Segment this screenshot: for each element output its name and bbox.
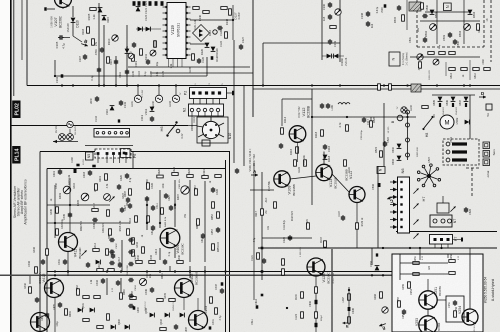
diode bridge D116 [193, 25, 210, 42]
resistor R252 [449, 260, 455, 263]
bus wire [55, 75, 207, 77]
junction [382, 247, 384, 249]
wire [322, 55, 344, 57]
connector P7 pin 1 [434, 238, 437, 241]
resistor R127 [315, 287, 318, 293]
wire [432, 94, 475, 96]
scale lamp E103 [172, 95, 179, 102]
adjust arrow [182, 187, 187, 192]
resistor R424 [202, 176, 208, 179]
capacitor C429 [117, 184, 121, 190]
wire [120, 278, 122, 292]
resistor R452 [217, 212, 220, 218]
wire [252, 0, 254, 117]
transistor V401 [160, 228, 180, 248]
junction [189, 270, 191, 272]
diode V110 [110, 106, 115, 111]
connector P2 pin 3 [205, 91, 208, 94]
resistor R428 [95, 184, 98, 190]
capacitor C118c [341, 215, 345, 221]
resistor R107 [107, 57, 110, 63]
capacitor C124 [155, 1, 158, 6]
arrowhead [53, 140, 57, 143]
resistor R524b [380, 151, 383, 157]
wire [323, 152, 325, 165]
wire [47, 8, 55, 10]
connector N6 square 4 [400, 203, 402, 205]
IC pin mark 13 [186, 24, 188, 26]
connector N5 pin 3 [112, 152, 115, 155]
resistor R464b [197, 219, 200, 225]
resistor R420 [157, 175, 163, 178]
transistor V413 [31, 313, 50, 332]
diode D111 [136, 7, 141, 12]
resistor R460b [120, 293, 123, 299]
pot R406 [104, 194, 111, 201]
pin lead [390, 219, 393, 221]
bus junction [262, 84, 264, 86]
pin lead [204, 112, 206, 116]
wire [377, 166, 379, 248]
IC pin lead [168, 59, 170, 68]
IC pin 9 left [163, 54, 168, 56]
capacitor C141 [119, 100, 123, 106]
connector N6 square 1 [400, 181, 402, 183]
connector P7 key [461, 238, 463, 242]
capacitor C126 [217, 26, 223, 30]
connector N4 pin 1 [96, 132, 99, 135]
capacitor C430 [41, 259, 45, 265]
resistor R521 [389, 84, 392, 90]
trimmer R261 [382, 307, 388, 313]
wire [204, 181, 206, 262]
transistor V412 [45, 279, 64, 298]
capacitor C433 [101, 278, 105, 284]
junction d [419, 247, 421, 249]
capacitor C404 [163, 259, 167, 265]
capacitor C403 [88, 170, 92, 176]
resistor R435 [94, 296, 100, 299]
test point [213, 30, 217, 34]
capacitor C439 [45, 312, 49, 318]
resistor R442 [142, 247, 145, 253]
wire [62, 8, 64, 10]
resistor L502 [449, 52, 455, 55]
junction [206, 43, 208, 45]
bus junction [469, 84, 471, 86]
resistor R467b [195, 189, 198, 195]
connector N2 pin 2 [197, 108, 200, 111]
AF module outer edge [229, 151, 231, 332]
switch box H12 [483, 151, 490, 158]
rail junction [224, 270, 226, 272]
switch box H11 [483, 142, 490, 149]
resistor R511 [461, 68, 467, 71]
resistor R260 [380, 292, 383, 298]
capacitor C418b [111, 253, 115, 259]
wire [420, 20, 480, 22]
wire [370, 117, 372, 121]
resistor R105 [90, 8, 96, 11]
capacitor C406 [150, 287, 154, 293]
capacitor C530 [378, 183, 381, 187]
capacitor C138 [384, 4, 387, 7]
transistor V111b [349, 187, 365, 203]
IC pin 13 right [186, 24, 191, 26]
rail junction [67, 270, 69, 272]
adjust arrow [417, 54, 422, 59]
bus wire [150, 72, 253, 74]
adjust arrow n6d [413, 233, 418, 238]
bus junction [406, 84, 408, 86]
capacitor C420 [125, 173, 129, 179]
IC pin lead [172, 59, 174, 68]
paper left margin [0, 0, 10, 332]
connector N6 pin 1 [393, 180, 398, 184]
wire [175, 86, 177, 96]
wire [64, 37, 70, 39]
connector P7 pin 2 [440, 238, 443, 241]
capacitor C125 [161, 1, 164, 6]
connector N5 pin 2 [106, 152, 109, 155]
switch H7 contact [436, 168, 439, 171]
signal arrow E3 [343, 322, 350, 329]
capacitor C401 [58, 169, 62, 175]
capacitor C137 [366, 21, 370, 27]
diode D507 [464, 97, 469, 102]
resistor R117 [261, 209, 264, 215]
IC pin 3 left [163, 18, 168, 20]
resistor R434 [83, 296, 89, 299]
connector N4 outline [94, 129, 130, 138]
resistor R411 [147, 216, 150, 222]
bus junction [463, 84, 465, 86]
diode Q401 [78, 308, 83, 313]
capacitor C502 [423, 37, 427, 43]
IC pin 7 left [163, 42, 168, 44]
resistor R462b [77, 289, 80, 295]
resistor R421 [172, 173, 178, 176]
wire [445, 62, 447, 76]
supply bus 2 [253, 88, 500, 90]
control N10 rotary [197, 117, 224, 139]
wire [47, 204, 110, 206]
IC pin mark 16 [186, 42, 188, 44]
wire [103, 25, 105, 85]
capacitor C434 [116, 280, 120, 286]
diode D505 [438, 97, 443, 102]
transistor V411 [59, 233, 78, 252]
capacitor C108 [58, 35, 64, 39]
diode D128 [211, 47, 216, 52]
capacitor column B [128, 262, 134, 266]
wire [159, 190, 161, 228]
pot R405 [81, 193, 89, 201]
wire [348, 287, 350, 325]
wire [227, 92, 234, 94]
rail junction [159, 270, 161, 272]
connector N2 outline [189, 104, 224, 116]
capacitor C432 [35, 297, 39, 303]
connector N6 square 5 [400, 211, 402, 213]
capacitor C408 [221, 282, 224, 285]
junction [159, 222, 161, 224]
relay N7 pin 1 [433, 219, 437, 223]
resistor R440 [132, 238, 135, 244]
resistor C403b [149, 261, 155, 264]
capacitor column B [128, 304, 134, 308]
capacitor C503 [448, 32, 452, 38]
junction [67, 270, 69, 272]
pin lead [447, 244, 449, 248]
pin lead [206, 99, 208, 105]
resistor R122 [344, 160, 347, 166]
wire [204, 266, 206, 310]
wire [261, 172, 263, 280]
wire [281, 99, 283, 126]
bus junction [339, 84, 341, 86]
capacitor column B [128, 278, 134, 282]
IC pin lead [177, 59, 179, 68]
adjust arrow [430, 24, 435, 29]
adjust arrow [82, 194, 87, 199]
resistor R414 [106, 249, 109, 255]
wire [189, 180, 191, 262]
pin lead [211, 112, 213, 116]
rail junction [54, 270, 56, 272]
capacitor C116 [323, 144, 327, 150]
pin lead [191, 112, 193, 116]
connector P2 pin 4 [211, 91, 214, 94]
relay N7 coil [437, 203, 449, 213]
wire [98, 3, 100, 85]
adjust arrow [64, 187, 69, 192]
capacitor C252b [402, 309, 406, 315]
switch H6 [166, 121, 177, 136]
wire [217, 116, 219, 117]
wire [469, 60, 471, 80]
diode D504 [468, 10, 473, 15]
connector P2 pin 5 [218, 91, 221, 94]
svg-text:R408: R408 [125, 191, 127, 197]
connector N9 bar 2 [452, 150, 467, 153]
wire [406, 0, 408, 30]
resistor R445 [157, 299, 163, 302]
module label PL02 [12, 101, 21, 119]
resistor R520 [378, 84, 381, 90]
pin lead [119, 155, 121, 163]
resistor R300 [348, 294, 351, 300]
IC pin 8 left [163, 48, 168, 50]
dashed wire 2 [471, 168, 473, 196]
connector N9 pin 2 [446, 150, 450, 154]
IC pin mark 5 [165, 30, 167, 32]
IC pin lead [181, 59, 183, 68]
connector P7 pin 3 [447, 238, 450, 241]
capacitor C120 [133, 1, 136, 6]
inner box W250 [446, 296, 464, 322]
bus junction [436, 84, 438, 86]
junction c [348, 289, 350, 291]
wire [407, 112, 409, 160]
pin lead [390, 196, 393, 198]
trimmer R502 [430, 24, 437, 31]
wire [204, 116, 206, 117]
capacitor C110 [97, 67, 101, 73]
resistor R124 [257, 253, 260, 259]
IC pin 18 right [186, 54, 191, 56]
bus junction [158, 84, 160, 86]
wire [54, 70, 56, 76]
wire [253, 163, 255, 300]
diode D506 [451, 97, 456, 102]
resistor R129b [307, 223, 310, 229]
wire [463, 0, 465, 44]
pin lead [390, 189, 393, 191]
junction [311, 116, 313, 118]
capacitor C109 [100, 47, 104, 53]
wire [137, 86, 139, 96]
AF module top edge [47, 168, 226, 170]
junction [103, 84, 105, 86]
resistor R133c [324, 241, 327, 247]
capacitor C251 [453, 300, 457, 306]
trimmer R110 [112, 35, 118, 41]
svg-text:C432: C432 [116, 243, 118, 249]
IC pin mark 9 [165, 54, 167, 56]
dial lamp bus [11, 125, 188, 127]
adjust arrow n6b [413, 203, 418, 208]
resistor R256 [454, 311, 457, 317]
resistor R425 [215, 175, 221, 178]
trimmer R131 [150, 50, 156, 56]
connector N6 pin 5 [393, 210, 398, 214]
wire [469, 254, 471, 309]
capacitor C124 [211, 56, 214, 60]
connector N9 pin 3 [446, 158, 450, 162]
resistor R251 [413, 262, 419, 265]
transistor V107 [55, 0, 72, 8]
wire [183, 298, 185, 310]
pin lead [390, 181, 393, 183]
IC pin mark 2 [165, 12, 167, 14]
capacitor C300 [348, 307, 351, 311]
wire [29, 276, 31, 284]
transistor V123 [307, 258, 325, 276]
capacitor C409 [92, 218, 98, 222]
connector N6 pin 4 [393, 203, 398, 207]
resistor R437 [107, 314, 110, 320]
capacitor C425b [164, 193, 168, 199]
AF module right edge [225, 160, 227, 332]
wire [312, 116, 416, 118]
resistor R140 [193, 7, 199, 10]
wire [174, 180, 176, 227]
pin lead [193, 99, 195, 105]
junction [98, 84, 100, 86]
resistor R258b [398, 301, 401, 307]
junction [72, 84, 74, 86]
IC pin 1 left [163, 6, 168, 8]
connector N4 pin 3 [108, 132, 111, 135]
lamp H1 [67, 121, 73, 127]
capacitor C453 [216, 227, 220, 233]
IC U119 outline [167, 3, 186, 59]
connector P6 pin [123, 152, 126, 155]
wire [53, 141, 78, 143]
capacitor C111 [125, 69, 129, 75]
resistor R121 [304, 160, 307, 166]
adjust arrow n7 [450, 206, 455, 211]
capacitor C113 [150, 116, 154, 122]
resistor R513 [484, 68, 490, 71]
capacitor C423 [128, 203, 132, 209]
resistor R119 [346, 125, 349, 131]
junction [54, 274, 56, 276]
resistor R103 [87, 27, 90, 33]
capacitor C136 [366, 11, 370, 17]
pin lead [113, 155, 115, 163]
pin circle [406, 153, 410, 157]
connector P2 pin 1 [192, 91, 195, 94]
small box [202, 140, 210, 146]
resistor R515 [402, 15, 405, 21]
resistor R104 [92, 39, 95, 45]
wire [462, 316, 464, 318]
label N box 2 [377, 167, 385, 174]
connector N6 square 3 [400, 196, 402, 198]
resistor R448 [215, 308, 218, 314]
resistor R466b [147, 183, 150, 189]
trimmer L109 [335, 9, 341, 15]
capacitor C122 [143, 1, 146, 6]
module label PL14 [12, 146, 21, 164]
resistor R402 [177, 261, 183, 264]
wire [158, 86, 160, 96]
resistor R454 [212, 244, 215, 250]
hatched block [409, 2, 421, 11]
adjust arrow n6a [413, 188, 418, 193]
wire [146, 272, 148, 278]
connector N6 square 7 [400, 226, 402, 228]
junction b [286, 307, 288, 309]
connector N5 pin 5 [125, 152, 128, 155]
capacitor C426 [211, 187, 215, 193]
resistor R141 [203, 11, 209, 14]
diode Q402 [90, 308, 95, 313]
rail junction b [371, 274, 373, 276]
switch H8 [422, 116, 433, 130]
wire [339, 0, 341, 62]
diode D114 [146, 27, 151, 32]
lamp H3 [67, 134, 74, 141]
coil L108 [338, 103, 350, 105]
IC pin mark 7 [165, 42, 167, 44]
resistor R413 [93, 249, 99, 252]
IC pin mark 12 [186, 18, 188, 20]
resistor R133 [132, 55, 135, 61]
diode V502 [397, 144, 402, 149]
signal arrow C [387, 195, 396, 205]
switch H7 contact [417, 171, 420, 174]
resistor R401 [105, 174, 108, 180]
rail junction [146, 270, 148, 272]
svg-text:C423: C423 [125, 205, 127, 211]
wire [262, 237, 312, 239]
connector N9 pin 1 [446, 142, 450, 146]
wire [243, 86, 245, 167]
resistor R418 [107, 210, 110, 216]
